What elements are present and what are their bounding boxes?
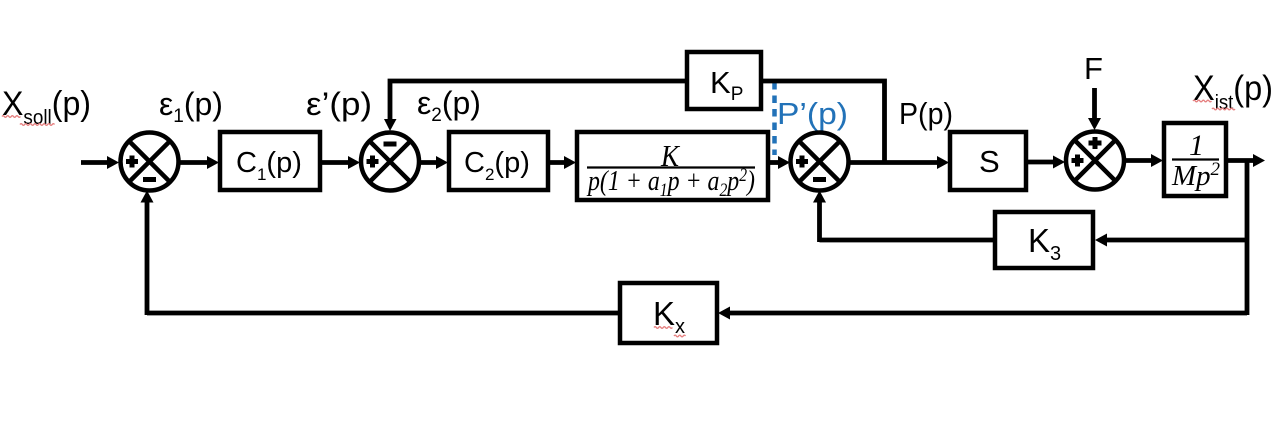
wire Kx to S1 minus input [147, 202, 620, 315]
block Kx [620, 283, 717, 343]
svg-text:F: F [1084, 51, 1103, 86]
block C1 [220, 132, 320, 190]
wire input to summer S1 [81, 160, 108, 165]
svg-text:C2(p): C2(p) [464, 147, 530, 184]
node P'(p) dashed marker (blue) [772, 82, 777, 155]
summing junction S2 [361, 133, 419, 191]
wire KP output to S2 minus input [390, 81, 687, 120]
svg-text:C1(p): C1(p) [236, 147, 302, 184]
wire output branch down [1245, 161, 1250, 316]
svg-text:ε2(p): ε2(p) [417, 85, 481, 126]
wire S1 to C1 [179, 160, 209, 165]
wire S3 to S block [848, 160, 938, 165]
svg-text:P(p): P(p) [899, 96, 953, 131]
summing junction S1 [121, 133, 179, 191]
svg-text:ε’(p): ε’(p) [306, 86, 372, 122]
block S [950, 132, 1026, 190]
wire C2 to plant block [548, 160, 565, 165]
wire to Kx [730, 311, 1247, 316]
wire C1 to S2 [320, 160, 349, 165]
block plant K/(p(1+a1p+a2p^2)) [577, 132, 768, 200]
wire to K3 [1107, 238, 1247, 243]
wire F into S4 [1092, 88, 1097, 118]
summing junction S4 [1066, 132, 1124, 190]
svg-text:1: 1 [1189, 129, 1204, 162]
wire S to summer S4 [1026, 160, 1053, 165]
svg-text:P’(p): P’(p) [777, 96, 848, 131]
svg-text:Xist(p): Xist(p) [1193, 69, 1273, 114]
block K3 [995, 212, 1093, 268]
wire plant to summer S3 [768, 160, 779, 165]
wire output [1226, 158, 1253, 163]
block 1/Mp2 [1164, 123, 1226, 196]
block C2 [449, 132, 548, 190]
svg-text:p(1 + a1p + a2p2): p(1 + a1p + a2p2) [586, 165, 755, 201]
svg-text:ε1(p): ε1(p) [159, 86, 223, 127]
block KP [687, 52, 761, 109]
wire S4 to block 1/Mp2 [1124, 158, 1152, 163]
svg-text:S: S [979, 144, 1000, 179]
wire K3 to S3 minus input [820, 202, 996, 242]
summing junction S3 [791, 133, 849, 191]
wire S2 to C2 [419, 160, 437, 165]
wire tap up to KP feedback [761, 81, 885, 162]
